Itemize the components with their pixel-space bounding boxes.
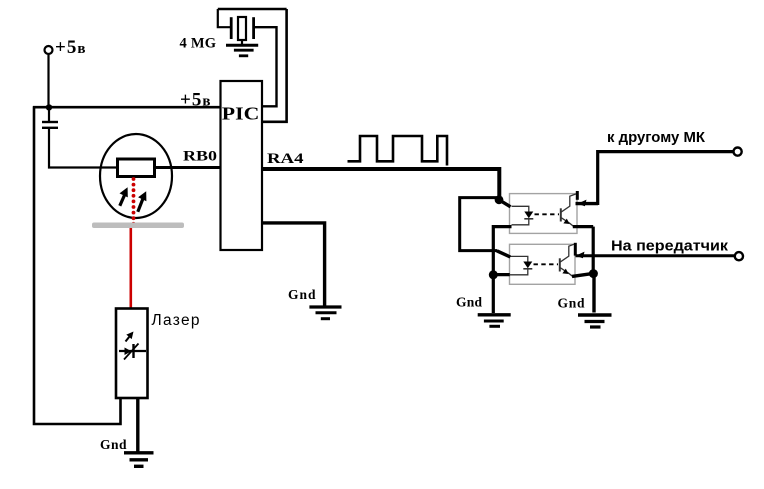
svg-text:Gnd: Gnd: [100, 437, 127, 452]
svg-text:Лазер: Лазер: [152, 312, 200, 329]
optocoupler U3 light dashes: [534, 263, 559, 265]
ground crystal: [226, 45, 258, 56]
PIC microcontroller box: [221, 81, 263, 250]
photoresistor envelope circle: [100, 134, 172, 218]
wire U3 collector stub to transmitter line: [574, 243, 577, 256]
wire RA4 output: [262, 169, 499, 199]
node emitters junction: [589, 269, 598, 278]
optocoupler U3 phototransistor: [560, 244, 574, 276]
wire to transmitter: [576, 254, 735, 257]
wire U3 emitter to junction: [572, 273, 593, 276]
svg-text:Gnd: Gnd: [456, 295, 482, 310]
wire laser to ground: [136, 398, 139, 452]
wire capacitor to photoresistor: [49, 129, 119, 168]
optocoupler U3 box: [510, 244, 576, 284]
terminal to transmitter: [735, 252, 743, 260]
wire +5 rail to PIC: [33, 106, 221, 109]
optocoupler U2 phototransistor: [561, 194, 576, 226]
wire PIC to ground: [262, 223, 325, 306]
ground PIC: [309, 307, 341, 319]
optocoupler U2 LED: [512, 206, 534, 225]
node junction on +5 rail: [46, 104, 52, 110]
svg-text:На передатчик: На передатчик: [611, 239, 729, 255]
wire U2 emitter to ground rail: [573, 225, 593, 228]
wire left rail down to laser: [34, 106, 121, 424]
svg-text:4 MG: 4 MG: [180, 36, 217, 52]
ground right opto: [578, 315, 612, 327]
wire to other MCU: [598, 152, 734, 205]
node cathodes junction: [489, 270, 498, 279]
square wave signal: [348, 136, 448, 166]
laser beam solid: [130, 228, 133, 309]
terminal to other MCU: [734, 148, 742, 156]
laser beam dotted (inside detector): [132, 177, 136, 226]
svg-text:PIC: PIC: [222, 104, 259, 124]
wire terminal to +5 rail: [47, 55, 49, 108]
crystal resonator 4MG symbol: [231, 17, 253, 45]
optocoupler U2 light dashes: [535, 213, 560, 215]
optocoupler U3 LED: [510, 256, 532, 274]
node RA4 junction: [495, 195, 504, 204]
crystal resonator 4MG wiring: [218, 9, 287, 122]
terminal +5V top-left: [45, 46, 53, 54]
photoresistor body: [118, 159, 155, 177]
svg-text:к другому МК: к другому МК: [607, 130, 705, 146]
wire U3 cathode to rail: [493, 273, 510, 276]
svg-text:Gnd: Gnd: [288, 287, 316, 302]
ground laser: [124, 453, 154, 467]
svg-text:Gnd: Gnd: [558, 296, 585, 311]
svg-text:+5в: +5в: [180, 90, 211, 111]
ground left opto: [478, 315, 511, 327]
wire emitters to ground: [592, 274, 595, 313]
light arrows: [120, 185, 151, 212]
optocoupler U2 box: [510, 194, 578, 234]
laser diode symbol: [119, 329, 146, 359]
capacitor C1: [42, 108, 58, 128]
laser module box: [116, 309, 148, 399]
wire U2 collector stub: [576, 191, 579, 200]
svg-text:RA4: RA4: [267, 151, 304, 167]
wire detour RA4 to U3 LED: [460, 198, 498, 251]
mirror / beam splitter bar: [92, 223, 184, 229]
svg-text:RB0: RB0: [183, 149, 217, 165]
wire RB0 photoresistor to PIC: [150, 166, 221, 169]
wire U2 cathode to ground rail: [493, 227, 511, 313]
svg-text:+5в: +5в: [55, 37, 86, 58]
